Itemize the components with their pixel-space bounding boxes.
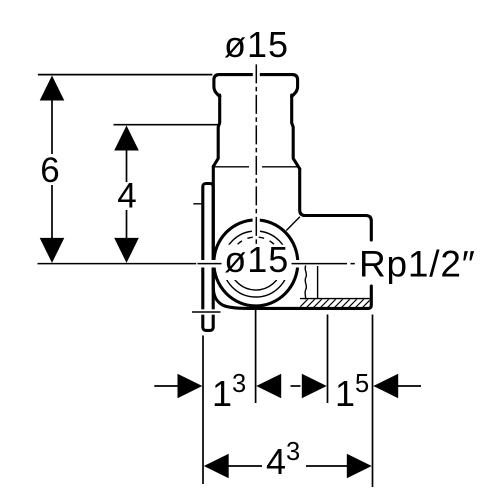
arrow right-pointing outside-left (dim 1-3) [178,374,203,399]
label mask 4 [114,182,139,210]
horizontal centerline left portion (solid to dimension area) [38,263,197,265]
arrow left-pointing outside-right (dim 1-5) [373,374,398,399]
label mask 6 [38,154,62,185]
label mask 1-5 [332,369,371,409]
inner bore circle lower arc (solid) [230,268,282,290]
arrow down at axis (dim 4) [114,238,139,263]
shoulder line at bead bottom [215,166,300,168]
arrow up at press depth (dim 4) [114,126,139,151]
gap: flange strokes at lower screw tick [201,309,208,314]
extension line at thread start [327,315,329,404]
arrow up at top (dim 6) [40,76,65,101]
dimension line 6 [51,100,53,239]
press socket bead (top rim) [214,75,298,97]
extension line at press depth [114,124,220,126]
screw hole tick lower [192,311,221,313]
svg-text:6: 6 [40,151,59,190]
thread hatch top border [300,298,370,300]
inner bore circle (outer thin) [223,231,289,297]
extension line center (below circle) [255,309,257,403]
dimension arrowheads [40,76,399,479]
label mask 4-3 [264,440,306,478]
svg-text:ø15: ø15 [224,24,289,65]
arrow left at 4-3 left end [204,454,229,479]
svg-text:Rp1/2″: Rp1/2″ [359,244,476,285]
gap: shoulder line zone at vertical centerline [249,164,262,171]
body left wall with fillet into bottom contour [213,167,262,309]
label mask Rp [357,243,478,284]
vertical centerline of riser [255,64,257,249]
svg-text:ø15: ø15 [224,239,289,280]
gap: circle right stroke at horizontal centerline [294,260,302,268]
extension line bottom left (below flange) [202,336,204,485]
inner bore circle upper arc (dashed) [230,237,282,259]
dimension 1-3 outside tail left [154,385,179,387]
label mask 1-3 [209,369,251,409]
svg-text:4: 4 [117,177,136,216]
label mask top dia [222,28,291,61]
socket wall left with press-depth jog [213,95,219,167]
dimension 1-5 outside tail right [397,385,422,387]
transition diagonal from circle to outlet corner [286,217,300,231]
dimension middle tail between arrows [291,385,301,387]
gap: circle top stroke [253,218,260,225]
thread start line [317,266,319,299]
wall flange plate [203,184,213,331]
dimension line 4 [126,150,128,239]
gap: circle left stroke / flange right stroke at horizontal centerline [210,260,218,268]
label mask circle dia [222,245,292,280]
gap in inner bore circle at top centerline [252,228,260,234]
front bore circle (bold) [214,220,298,306]
screw hole tick upper [193,203,202,205]
extension line top (level of socket top) [38,74,213,76]
horizontal centerline through flange and circle [198,263,302,265]
outlet right edge lower part and bottom edge [252,286,371,308]
arrow right at 4-3 right end [347,454,372,479]
break squiggle at thread section [305,266,306,300]
arrow left-pointing at center line (dim 1-5 left) [256,374,281,399]
body right wall, outlet top edge, outlet right edge (gapped for Rp label) [300,169,372,240]
dimension 4-3 tails [228,465,348,467]
arrow down at axis (dim 6) [40,238,65,263]
socket wall right with press-depth jog [292,95,300,169]
arrow right-pointing at thread line (dim 1-5 right) [302,374,327,399]
gap: rim top edge at vertical centerline [253,72,260,78]
thread hatch lines [298,299,378,309]
gap: flange left stroke at horizontal centerline [201,260,208,268]
horizontal centerline right (to Rp label) [301,263,355,265]
extension line right (below outlet) [372,315,374,488]
